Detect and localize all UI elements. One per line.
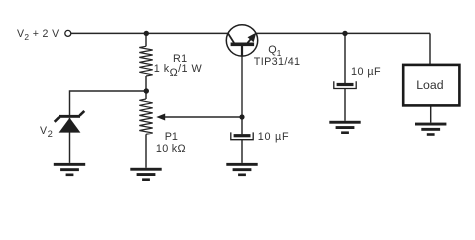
svg-text:10 kΩ: 10 kΩ bbox=[156, 143, 186, 155]
svg-text:10 µF: 10 µF bbox=[258, 131, 290, 143]
svg-text:Load: Load bbox=[416, 78, 444, 92]
svg-text:1 kΩ/1 W: 1 kΩ/1 W bbox=[154, 63, 203, 79]
svg-text:V2: V2 bbox=[40, 125, 53, 139]
svg-text:P1: P1 bbox=[165, 131, 178, 143]
svg-text:10 µF: 10 µF bbox=[351, 66, 381, 78]
svg-text:TIP31/41: TIP31/41 bbox=[254, 56, 301, 68]
svg-text:V2 + 2 V: V2 + 2 V bbox=[17, 28, 60, 42]
